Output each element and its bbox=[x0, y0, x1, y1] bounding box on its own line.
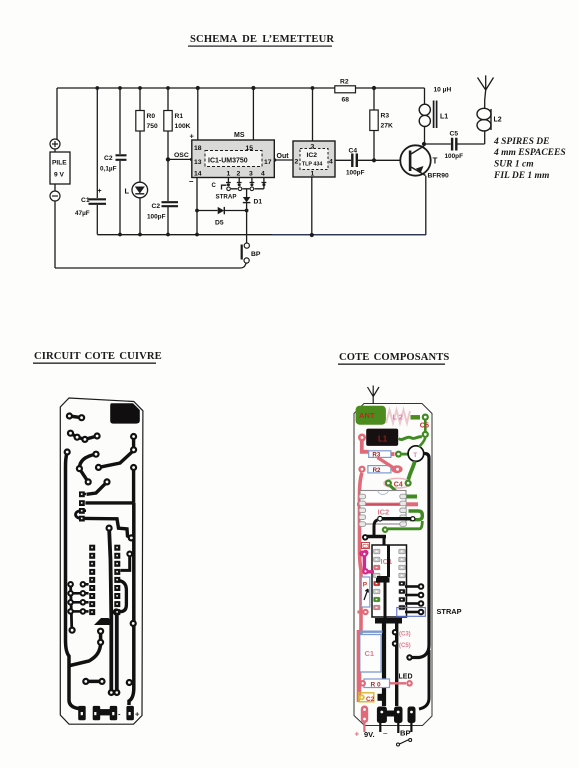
svg-text:68: 68 bbox=[342, 97, 350, 104]
svg-text:STRAP: STRAP bbox=[216, 194, 237, 201]
svg-text:C4: C4 bbox=[394, 481, 403, 488]
svg-text:R1: R1 bbox=[175, 113, 184, 120]
svg-text:L1: L1 bbox=[440, 114, 448, 121]
svg-text:OSC: OSC bbox=[174, 152, 189, 159]
svg-text:(C3): (C3) bbox=[399, 632, 411, 638]
svg-text:–: – bbox=[189, 177, 194, 186]
svg-text:9 V: 9 V bbox=[54, 172, 64, 179]
svg-text:15: 15 bbox=[246, 145, 254, 152]
svg-text:2: 2 bbox=[295, 159, 299, 166]
svg-text:P: P bbox=[363, 582, 368, 589]
svg-text:L 2: L 2 bbox=[393, 413, 403, 422]
svg-text:3: 3 bbox=[249, 171, 253, 178]
svg-text:100K: 100K bbox=[175, 123, 191, 130]
svg-text:47µF: 47µF bbox=[75, 210, 90, 217]
svg-text:18: 18 bbox=[194, 145, 202, 152]
svg-text:ANT: ANT bbox=[359, 411, 375, 420]
svg-text:R0: R0 bbox=[147, 113, 156, 120]
svg-text:C5: C5 bbox=[420, 421, 429, 430]
svg-text:+: + bbox=[190, 132, 195, 141]
svg-text:C2: C2 bbox=[366, 696, 375, 703]
svg-text:27K: 27K bbox=[381, 123, 393, 130]
svg-text:10 µH: 10 µH bbox=[434, 87, 452, 94]
svg-text:+: + bbox=[135, 710, 140, 719]
svg-text:D1: D1 bbox=[254, 199, 263, 206]
svg-text:STRAP: STRAP bbox=[437, 607, 462, 616]
svg-text:4 mm ESPACEES: 4 mm ESPACEES bbox=[493, 148, 566, 158]
svg-text:L: L bbox=[125, 187, 130, 196]
svg-text:MS: MS bbox=[234, 132, 245, 139]
svg-text:17: 17 bbox=[264, 159, 272, 166]
svg-text:+: + bbox=[98, 188, 102, 195]
svg-text:750: 750 bbox=[147, 123, 158, 130]
svg-text:C1: C1 bbox=[81, 197, 90, 204]
svg-text:4: 4 bbox=[261, 171, 265, 178]
svg-text:CIRCUIT COTE CUIVRE: CIRCUIT COTE CUIVRE bbox=[34, 351, 162, 362]
svg-text:T: T bbox=[413, 452, 417, 459]
svg-text:IC2: IC2 bbox=[307, 152, 318, 159]
svg-text:0,1µF: 0,1µF bbox=[100, 166, 117, 173]
svg-text:TLP 434: TLP 434 bbox=[302, 162, 323, 168]
svg-text:L1: L1 bbox=[378, 434, 388, 443]
svg-text:100pF: 100pF bbox=[346, 170, 365, 177]
svg-text:1: 1 bbox=[227, 171, 231, 178]
svg-text:C2: C2 bbox=[104, 155, 113, 162]
svg-text:IC2: IC2 bbox=[378, 508, 390, 517]
svg-text:BP: BP bbox=[400, 729, 411, 738]
svg-text:1: 1 bbox=[311, 171, 315, 178]
svg-text:–: – bbox=[383, 729, 388, 738]
svg-text:4 SPIRES DE: 4 SPIRES DE bbox=[493, 137, 549, 147]
svg-text:C3: C3 bbox=[362, 544, 369, 550]
svg-text:SUR 1 cm: SUR 1 cm bbox=[494, 160, 534, 170]
svg-text:L2: L2 bbox=[494, 117, 502, 124]
svg-text:9V.: 9V. bbox=[364, 730, 375, 739]
svg-text:+: + bbox=[355, 730, 360, 739]
svg-text:R 0: R 0 bbox=[371, 681, 382, 688]
svg-text:T: T bbox=[433, 157, 438, 166]
svg-text:D5: D5 bbox=[215, 220, 224, 227]
svg-text:100pF: 100pF bbox=[147, 214, 166, 221]
svg-text:C2: C2 bbox=[152, 203, 161, 210]
svg-text:BFR90: BFR90 bbox=[428, 173, 449, 180]
svg-text:SCHEMA DE L’EMETTEUR: SCHEMA DE L’EMETTEUR bbox=[190, 34, 334, 45]
svg-text:(C5): (C5) bbox=[399, 643, 411, 649]
svg-text:100pF: 100pF bbox=[445, 153, 464, 160]
svg-text:R3: R3 bbox=[381, 113, 390, 120]
svg-text:C1: C1 bbox=[365, 649, 375, 658]
svg-text:2: 2 bbox=[237, 171, 241, 178]
svg-text:C5: C5 bbox=[450, 131, 459, 138]
svg-text:4: 4 bbox=[329, 159, 333, 166]
svg-text:14: 14 bbox=[194, 171, 202, 178]
svg-text:PILE: PILE bbox=[52, 160, 67, 167]
svg-text:BP: BP bbox=[251, 251, 261, 258]
svg-text:LED: LED bbox=[399, 674, 413, 681]
svg-text:Out: Out bbox=[277, 153, 290, 160]
svg-text:IC1: IC1 bbox=[381, 557, 393, 566]
svg-text:IC1-UM3750: IC1-UM3750 bbox=[208, 158, 248, 165]
svg-text:COTE COMPOSANTS: COTE COMPOSANTS bbox=[339, 352, 449, 363]
svg-text:C4: C4 bbox=[349, 148, 358, 155]
svg-text:R2: R2 bbox=[340, 79, 349, 86]
svg-text:C: C bbox=[212, 183, 217, 189]
svg-text:FIL DE 1 mm: FIL DE 1 mm bbox=[493, 171, 549, 181]
svg-text:3: 3 bbox=[311, 144, 315, 151]
svg-text:13: 13 bbox=[194, 159, 202, 166]
svg-text:R2: R2 bbox=[373, 467, 381, 474]
